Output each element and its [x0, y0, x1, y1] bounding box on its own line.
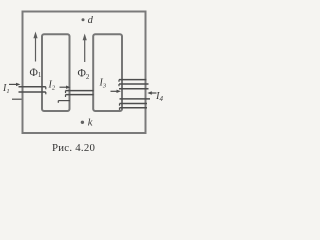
- svg-text:I3: I3: [99, 78, 107, 90]
- svg-text:I1: I1: [2, 83, 10, 95]
- svg-text:d: d: [88, 15, 94, 26]
- svg-text:Φ2: Φ2: [78, 68, 90, 82]
- svg-text:Рис. 4.20: Рис. 4.20: [52, 142, 95, 154]
- svg-text:Φ1: Φ1: [30, 67, 42, 79]
- svg-text:k: k: [88, 117, 93, 128]
- svg-text:I2: I2: [48, 80, 56, 92]
